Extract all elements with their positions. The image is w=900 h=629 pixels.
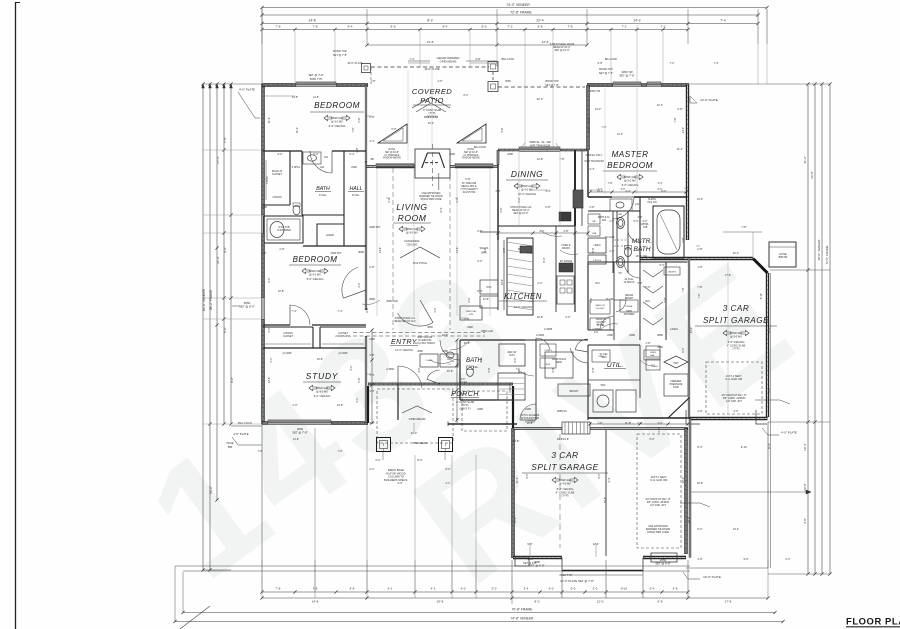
bedroom2 door arc <box>342 267 358 298</box>
svg-text:3'-0": 3'-0" <box>350 365 353 370</box>
svg-text:VALVES: VALVES <box>668 271 676 274</box>
lower garage center line <box>559 434 561 548</box>
svg-text:5'-0": 5'-0" <box>267 327 271 332</box>
svg-text:10 CEL.: 10 CEL. <box>605 298 614 301</box>
svg-text:4'-1": 4'-1" <box>446 482 451 485</box>
svg-text:14'-8": 14'-8" <box>313 96 319 99</box>
porch north wall <box>368 383 513 386</box>
right connector top y84 <box>688 83 830 85</box>
svg-text:9'-0: 9'-0 <box>549 587 554 591</box>
svg-text:10'-0" PLATE: 10'-0" PLATE <box>347 61 363 65</box>
svg-text:12'-0": 12'-0" <box>688 517 691 523</box>
svg-text:7'-8": 7'-8" <box>352 127 355 132</box>
svg-text:PANTRY: PANTRY <box>509 383 512 393</box>
right connector y270 <box>770 269 830 271</box>
svg-text:OPEN BEAM: OPEN BEAM <box>413 442 428 445</box>
svg-text:SET @ 91'-8": SET @ 91'-8" <box>464 152 478 154</box>
svg-text:STUDY: STUDY <box>306 371 339 381</box>
master bedroom west wall <box>586 85 589 150</box>
svg-text:8'-4": 8'-4" <box>542 257 546 262</box>
svg-text:FINDOW ABOVE: FINDOW ABOVE <box>383 157 401 160</box>
svg-text:8'-0": 8'-0" <box>417 458 422 462</box>
kitchen west counter <box>497 165 499 241</box>
garage dashed door rect right <box>706 362 762 414</box>
leader curves scatter <box>540 230 562 236</box>
covered patio post NW <box>362 64 371 73</box>
svg-text:@ 9-0 MX: @ 9-0 MX <box>331 120 343 124</box>
watermark diagonal light text <box>117 224 828 618</box>
dimension lines right block <box>807 84 809 574</box>
svg-text:7'-4": 7'-4" <box>409 57 414 61</box>
svg-text:14'-0": 14'-0" <box>595 107 602 111</box>
svg-text:10'-8": 10'-8" <box>278 290 284 293</box>
dimension line top row5 partial <box>367 44 587 46</box>
svg-text:8'-4": 8'-4" <box>477 289 482 293</box>
svg-text:9'-0": 9'-0" <box>223 247 227 253</box>
dimension line top row3 <box>262 23 758 25</box>
svg-text:O.H. GAR. DR.: O.H. GAR. DR. <box>650 478 668 482</box>
lower garage south wall <box>513 556 562 559</box>
svg-text:10 SHLVS: 10 SHLVS <box>624 281 635 284</box>
svg-text:2'-8": 2'-8" <box>356 147 359 152</box>
master bedroom north windows <box>613 83 641 85</box>
kitchen pantry walls <box>498 309 556 311</box>
svg-text:8'-8: 8'-8 <box>350 587 355 591</box>
svg-text:14'-0": 14'-0" <box>681 127 685 134</box>
svg-text:2'-0": 2'-0" <box>786 558 791 561</box>
svg-text:5'-8": 5'-8" <box>591 367 595 372</box>
svg-text:2468: 2468 <box>507 152 513 156</box>
svg-text:72'-8" FRAME: 72'-8" FRAME <box>510 11 532 15</box>
svg-text:LAV: LAV <box>618 213 623 216</box>
svg-text:(188 S.F.): (188 S.F.) <box>459 406 470 410</box>
svg-text:RSS: RSS <box>546 364 551 366</box>
svg-text:2468 PKT: 2468 PKT <box>369 225 381 229</box>
master bedroom east wall <box>686 85 689 240</box>
hall walls center <box>525 339 588 341</box>
svg-text:BEDROOM: BEDROOM <box>607 161 653 170</box>
svg-text:LAV: LAV <box>635 203 640 206</box>
master bedroom south wall <box>588 196 612 198</box>
svg-text:4'-0" PLATE: 4'-0" PLATE <box>239 88 255 92</box>
svg-text:20'-8": 20'-8" <box>767 327 771 334</box>
svg-text:2'-8": 2'-8" <box>610 250 615 253</box>
svg-text:3'-4": 3'-4" <box>658 182 663 185</box>
svg-text:2'-8": 2'-8" <box>589 205 594 209</box>
kitchen island hatched <box>507 238 533 315</box>
svg-text:14'-8: 14'-8 <box>308 19 315 23</box>
svg-text:14'-8: 14'-8 <box>312 600 319 604</box>
svg-text:8' CEL.: 8' CEL. <box>319 194 327 197</box>
svg-text:7'-8: 7'-8 <box>276 587 281 591</box>
lower garage north wall <box>513 427 562 429</box>
svg-text:(2) 3068: (2) 3068 <box>283 352 293 355</box>
right garage west wall <box>688 259 690 419</box>
master closet walls <box>587 262 589 330</box>
svg-text:5'-0": 5'-0" <box>660 264 665 267</box>
svg-text:3'-0": 3'-0" <box>356 397 359 402</box>
svg-text:12'-8": 12'-8" <box>267 377 271 384</box>
svg-text:4'-0": 4'-0" <box>609 219 614 223</box>
svg-text:TUB: TUB <box>643 226 648 229</box>
svg-text:3'-4: 3'-4 <box>524 587 529 591</box>
svg-text:2468: 2468 <box>607 333 613 337</box>
porch step edge lines <box>367 386 369 423</box>
svg-text:@ 9-0 MX: @ 9-0 MX <box>316 390 328 394</box>
util walls <box>588 344 640 346</box>
svg-text:9'-0": 9'-0" <box>230 377 234 383</box>
svg-text:64'-0" VENEER: 64'-0" VENEER <box>202 288 206 311</box>
bath toilet <box>293 205 300 215</box>
svg-text:22'-4": 22'-4" <box>657 104 663 107</box>
svg-text:BUILDERS SPECS.: BUILDERS SPECS. <box>384 478 408 482</box>
right garage north wall <box>640 257 753 260</box>
svg-text:5'-8": 5'-8" <box>591 247 595 252</box>
svg-text:@ 9-0 MX: @ 9-0 MX <box>309 273 321 277</box>
fireplace outer box <box>415 149 450 178</box>
svg-text:W.C.: W.C. <box>595 282 601 285</box>
svg-text:8'-0": 8'-0" <box>598 473 601 478</box>
right veneer double line <box>770 273 772 568</box>
svg-text:23'-4": 23'-4" <box>690 327 693 333</box>
svg-text:TILE, DN: TILE, DN <box>647 202 657 204</box>
svg-text:2'-8": 2'-8" <box>657 427 661 432</box>
svg-text:FREEZER: FREEZER <box>671 381 682 383</box>
svg-text:FL TRIANGLE: FL TRIANGLE <box>464 154 479 157</box>
svg-text:4'-0": 4'-0" <box>638 216 643 219</box>
svg-text:20'-8": 20'-8" <box>803 483 807 491</box>
left dim arrows <box>202 84 205 88</box>
svg-text:LINEN: LINEN <box>326 233 334 237</box>
interior dim chain util horizontal <box>590 423 688 425</box>
bottom-left corner diagonal leader <box>180 606 210 629</box>
dimension line top row4 <box>262 29 688 31</box>
living room window east sill <box>455 164 493 166</box>
svg-text:2'-8": 2'-8" <box>681 237 685 242</box>
svg-text:SET @ 6'-8": SET @ 6'-8" <box>523 562 537 565</box>
svg-text:6'-8": 6'-8" <box>365 307 369 312</box>
svg-text:5'-8": 5'-8" <box>357 117 361 122</box>
svg-text:2468: 2468 <box>447 359 453 361</box>
svg-text:BENCH: BENCH <box>625 297 634 300</box>
svg-text:5'-0": 5'-0" <box>270 357 273 362</box>
interior dim chain bath2 vertical <box>456 340 458 420</box>
window 4060 study south <box>268 421 331 423</box>
living room pitch chevron <box>400 247 440 258</box>
svg-text:3050: 3050 <box>527 558 533 561</box>
util closet extra boxes <box>646 346 660 357</box>
svg-text:UTIL.: UTIL. <box>607 362 624 369</box>
svg-text:9'-8": 9'-8" <box>475 57 480 61</box>
svg-text:TOILEA: TOILEA <box>459 381 468 384</box>
svg-text:9'-8: 9'-8 <box>390 25 395 29</box>
svg-text:FLUSH HID: FLUSH HID <box>463 191 476 194</box>
svg-text:5'-8": 5'-8" <box>650 438 655 441</box>
svg-text:14'-8": 14'-8" <box>293 438 299 441</box>
svg-text:9'-8": 9'-8" <box>484 247 487 252</box>
svg-text:9'-0": 9'-0" <box>267 277 271 282</box>
svg-text:5'-8": 5'-8" <box>357 377 361 382</box>
linen closet <box>317 224 344 246</box>
svg-text:10'-0" PLATE SET @ 7'-8": 10'-0" PLATE SET @ 7'-8" <box>560 579 594 583</box>
dimension line top 72-8 frame <box>262 14 758 16</box>
svg-text:7'-2: 7'-2 <box>507 25 512 29</box>
svg-text:11'-4": 11'-4" <box>267 117 271 123</box>
mud hall arcs <box>536 338 550 350</box>
svg-text:4'-0": 4'-0" <box>292 403 297 407</box>
svg-text:CO: CO <box>447 364 451 366</box>
svg-text:2'-8": 2'-8" <box>438 80 443 83</box>
svg-text:7'-2: 7'-2 <box>660 25 665 29</box>
lower-left long extension verticals <box>414 455 416 592</box>
center hall more boxes <box>540 344 556 356</box>
svg-text:9'-0": 9'-0" <box>277 152 282 156</box>
svg-text:SPLIT GARAGE: SPLIT GARAGE <box>703 316 769 325</box>
svg-text:12'-0": 12'-0" <box>681 477 685 484</box>
porch dashed beam outline <box>377 389 453 443</box>
svg-text:1/2" EXP. JNT: 1/2" EXP. JNT <box>726 400 742 403</box>
master bath walls <box>639 197 641 262</box>
master ceiling line vertical <box>636 88 638 194</box>
svg-text:3080 CAD: 3080 CAD <box>386 300 398 303</box>
svg-text:9'-10: 9'-10 <box>621 587 628 591</box>
entry door arc <box>398 313 434 326</box>
master closet chevron shelves <box>643 270 663 277</box>
living room window extension verticals <box>376 168 378 316</box>
right connector y422 <box>768 421 830 423</box>
svg-text:OPEN BEAM: OPEN BEAM <box>409 417 426 421</box>
svg-text:5'-8: 5'-8 <box>537 25 542 29</box>
svg-text:5050: 5050 <box>427 326 433 329</box>
svg-text:68'-2" FRAME: 68'-2" FRAME <box>209 290 213 310</box>
interior dim chain master south <box>590 191 686 193</box>
svg-text:4'-8": 4'-8" <box>698 558 703 561</box>
sliding glass door dining <box>519 148 560 150</box>
svg-text:8'-2": 8'-2" <box>464 94 469 97</box>
page border left edge <box>15 2 17 629</box>
walk-in closet walls <box>289 151 291 205</box>
svg-text:3'-4": 3'-4" <box>589 167 594 171</box>
svg-text:1'-8": 1'-8" <box>370 79 375 83</box>
wall left wing east (shared) <box>365 85 367 162</box>
entry structural beam dashed <box>353 332 485 334</box>
svg-text:2'-8": 2'-8" <box>697 247 702 251</box>
garage bay divider wall <box>605 430 607 556</box>
svg-text:SHOWER: SHOWER <box>624 313 635 316</box>
svg-text:5'-0": 5'-0" <box>461 379 466 381</box>
svg-text:9'-10": 9'-10" <box>741 445 748 449</box>
svg-text:3'-0": 3'-0" <box>417 367 421 372</box>
left horizontal connector lines <box>203 83 262 85</box>
svg-text:2'-2": 2'-2" <box>538 282 543 285</box>
garage corner brackets <box>686 410 700 424</box>
svg-text:2'-8": 2'-8" <box>698 410 703 413</box>
svg-text:BATH: BATH <box>316 186 330 192</box>
svg-text:10'-8": 10'-8" <box>483 298 489 301</box>
svg-text:16'-8": 16'-8" <box>447 369 454 373</box>
svg-text:KITCHEN: KITCHEN <box>504 292 542 301</box>
svg-text:8'-0": 8'-0" <box>590 297 593 302</box>
svg-text:5'-0": 5'-0" <box>480 357 483 362</box>
svg-text:8'-2: 8'-2 <box>427 19 433 23</box>
svg-text:ENTRY: ENTRY <box>391 339 418 346</box>
fireplace trapezoid <box>422 153 445 168</box>
svg-text:10'-0" PLATE: 10'-0" PLATE <box>700 98 718 102</box>
svg-text:5'-8: 5'-8 <box>658 600 663 604</box>
svg-text:6'-0": 6'-0" <box>767 387 771 392</box>
svg-text:SET @ 7'-8": SET @ 7'-8" <box>308 73 323 77</box>
svg-text:2468: 2468 <box>477 407 483 411</box>
svg-text:9'-0" CEILING: 9'-0" CEILING <box>329 124 346 128</box>
svg-text:PRESSURE: PRESSURE <box>670 384 683 386</box>
window 4050 bedroom1 north <box>296 83 336 85</box>
svg-text:HALL: HALL <box>350 186 363 192</box>
svg-text:MSTR.: MSTR. <box>632 238 653 245</box>
svg-text:10'-0" CEL.: 10'-0" CEL. <box>635 254 648 258</box>
left extension horizontals <box>203 149 262 151</box>
svg-text:12'-8": 12'-8" <box>262 397 265 403</box>
svg-text:STEP ALL: STEP ALL <box>331 116 343 120</box>
bedroom1 door arc <box>310 151 332 173</box>
svg-text:7'-8": 7'-8" <box>608 182 613 185</box>
linen2 <box>588 238 606 253</box>
svg-text:MICRO: MICRO <box>562 247 570 250</box>
dimension line top 74-0 veneer <box>262 7 767 9</box>
svg-text:SB: SB <box>370 157 374 161</box>
bedroom2 south wall <box>263 324 290 326</box>
svg-text:9'-4: 9'-4 <box>347 25 352 29</box>
svg-text:7'-8": 7'-8" <box>223 137 227 143</box>
svg-text:SET @ 7'-8": SET @ 7'-8" <box>545 84 559 87</box>
patio roof dashed east segment <box>498 86 585 88</box>
svg-text:9'-0": 9'-0" <box>734 410 739 413</box>
svg-text:@ 9-0 MX: @ 9-0 MX <box>624 179 636 183</box>
svg-text:8'-0": 8'-0" <box>658 188 663 191</box>
kitchen west cabinets <box>480 280 498 294</box>
svg-text:5050: 5050 <box>505 80 511 83</box>
svg-text:CAV: CAV <box>618 272 623 275</box>
svg-text:11'-4": 11'-4" <box>677 147 683 151</box>
svg-text:10'-4": 10'-4" <box>803 443 807 451</box>
svg-text:SET @ 8'-0": SET @ 8'-0" <box>239 305 255 309</box>
svg-text:STRAP PER CODE: STRAP PER CODE <box>647 531 669 534</box>
svg-text:SET @ 7'-8": SET @ 7'-8" <box>292 430 307 434</box>
svg-text:14'-0": 14'-0" <box>697 198 703 201</box>
svg-text:SET @ 10'-0": SET @ 10'-0" <box>513 212 528 215</box>
svg-text:@ 9-0 MX: @ 9-0 MX <box>730 335 742 339</box>
svg-text:5 SHLV: 5 SHLV <box>292 166 301 169</box>
svg-text:4068: 4068 <box>417 350 423 353</box>
lower garage east wall <box>684 428 687 554</box>
dimension lines left block <box>202 84 204 570</box>
svg-text:HOSE: HOSE <box>226 442 233 445</box>
right bumpout box <box>769 242 796 267</box>
right garage south wall <box>690 417 768 420</box>
svg-text:CLOSET: CLOSET <box>596 308 605 310</box>
svg-text:8'-4": 8'-4" <box>440 207 443 212</box>
right-wing extension verticals <box>766 273 768 418</box>
svg-text:16'-8": 16'-8" <box>442 334 448 337</box>
svg-text:7'-4": 7'-4" <box>714 62 719 65</box>
svg-text:5'-0": 5'-0" <box>645 285 650 289</box>
right connector y574 <box>768 573 830 575</box>
svg-text:BIB DR: BIB DR <box>779 255 788 259</box>
svg-text:8'-4": 8'-4" <box>697 445 702 449</box>
svg-text:9'-0": 9'-0" <box>697 527 702 531</box>
svg-text:16'-8": 16'-8" <box>317 358 323 361</box>
svg-text:9'-8": 9'-8" <box>545 205 550 209</box>
svg-text:& SHOWER: & SHOWER <box>277 229 291 232</box>
svg-text:3'-0": 3'-0" <box>433 307 437 312</box>
svg-text:21'-4": 21'-4" <box>515 477 519 484</box>
svg-text:14'-8": 14'-8" <box>292 95 299 99</box>
svg-text:SPLIT GARAGE: SPLIT GARAGE <box>531 462 598 472</box>
svg-text:(TYP): (TYP) <box>561 494 568 498</box>
svg-text:STEP ALL: STEP ALL <box>406 227 418 231</box>
svg-text:7'-4: 7'-4 <box>720 19 726 23</box>
svg-text:2'-0": 2'-0" <box>370 468 375 471</box>
svg-text:4'-0" PLATE: 4'-0" PLATE <box>233 432 249 436</box>
svg-text:W/D: W/D <box>601 384 606 387</box>
svg-text:PORCH: PORCH <box>451 391 479 398</box>
exterior wall left wing south (study) <box>262 421 268 424</box>
svg-text:22'-4: 22'-4 <box>536 19 543 23</box>
svg-text:20'-8": 20'-8" <box>697 482 703 485</box>
svg-text:3068: 3068 <box>358 250 364 254</box>
svg-text:3'-0": 3'-0" <box>357 282 361 287</box>
svg-text:NOTE:: NOTE: <box>388 149 395 151</box>
svg-text:9'-0": 9'-0" <box>587 127 591 132</box>
svg-text:4'-4": 4'-4" <box>625 189 630 193</box>
svg-text:9'-0: 9'-0 <box>461 587 466 591</box>
svg-text:5'-0: 5'-0 <box>593 587 598 591</box>
svg-text:3 CAR: 3 CAR <box>723 304 750 313</box>
garage south window boxes <box>515 557 529 566</box>
patio dashed side verticals <box>370 67 372 84</box>
svg-text:10'-0" CEILING: 10'-0" CEILING <box>518 192 536 196</box>
patio roof pitch triangle right <box>457 124 486 143</box>
svg-text:2468: 2468 <box>629 333 635 337</box>
svg-text:10 FULL: 10 FULL <box>605 235 616 239</box>
svg-text:9'-8: 9'-8 <box>673 587 678 591</box>
svg-text:34'-8": 34'-8" <box>810 171 814 179</box>
svg-text:STEP ALL: STEP ALL <box>624 175 636 179</box>
svg-text:1'-8": 1'-8" <box>645 341 650 345</box>
svg-text:LINEN: LINEN <box>650 352 657 354</box>
svg-text:SET @ 10'-0": SET @ 10'-0" <box>554 49 569 52</box>
svg-text:14'-2: 14'-2 <box>633 19 640 23</box>
interior dim chain entry vertical <box>371 330 373 423</box>
svg-text:7'-8": 7'-8" <box>698 293 701 298</box>
svg-text:3'-4": 3'-4" <box>369 139 374 143</box>
svg-text:2 RODS RSS: 2 RODS RSS <box>335 335 350 338</box>
svg-text:C.O: C.O <box>594 331 598 334</box>
svg-text:11'-8": 11'-8" <box>625 421 631 425</box>
svg-text:9'-8": 9'-8" <box>744 558 749 561</box>
svg-text:9'-8": 9'-8" <box>598 62 603 65</box>
master bedroom north wall <box>587 83 613 86</box>
kitchen-dining column wall <box>574 150 576 226</box>
porch columns <box>377 438 391 452</box>
svg-text:LINEN: LINEN <box>670 327 678 331</box>
svg-text:NOTE:: NOTE: <box>467 149 474 151</box>
kitchen north wall <box>498 225 575 227</box>
svg-text:5'-8": 5'-8" <box>664 297 667 302</box>
bath2 fixtures <box>467 368 474 377</box>
center hall door arcs <box>440 340 460 360</box>
svg-text:20'-8: 20'-8 <box>437 600 444 604</box>
svg-text:7'-2": 7'-2" <box>670 62 675 65</box>
